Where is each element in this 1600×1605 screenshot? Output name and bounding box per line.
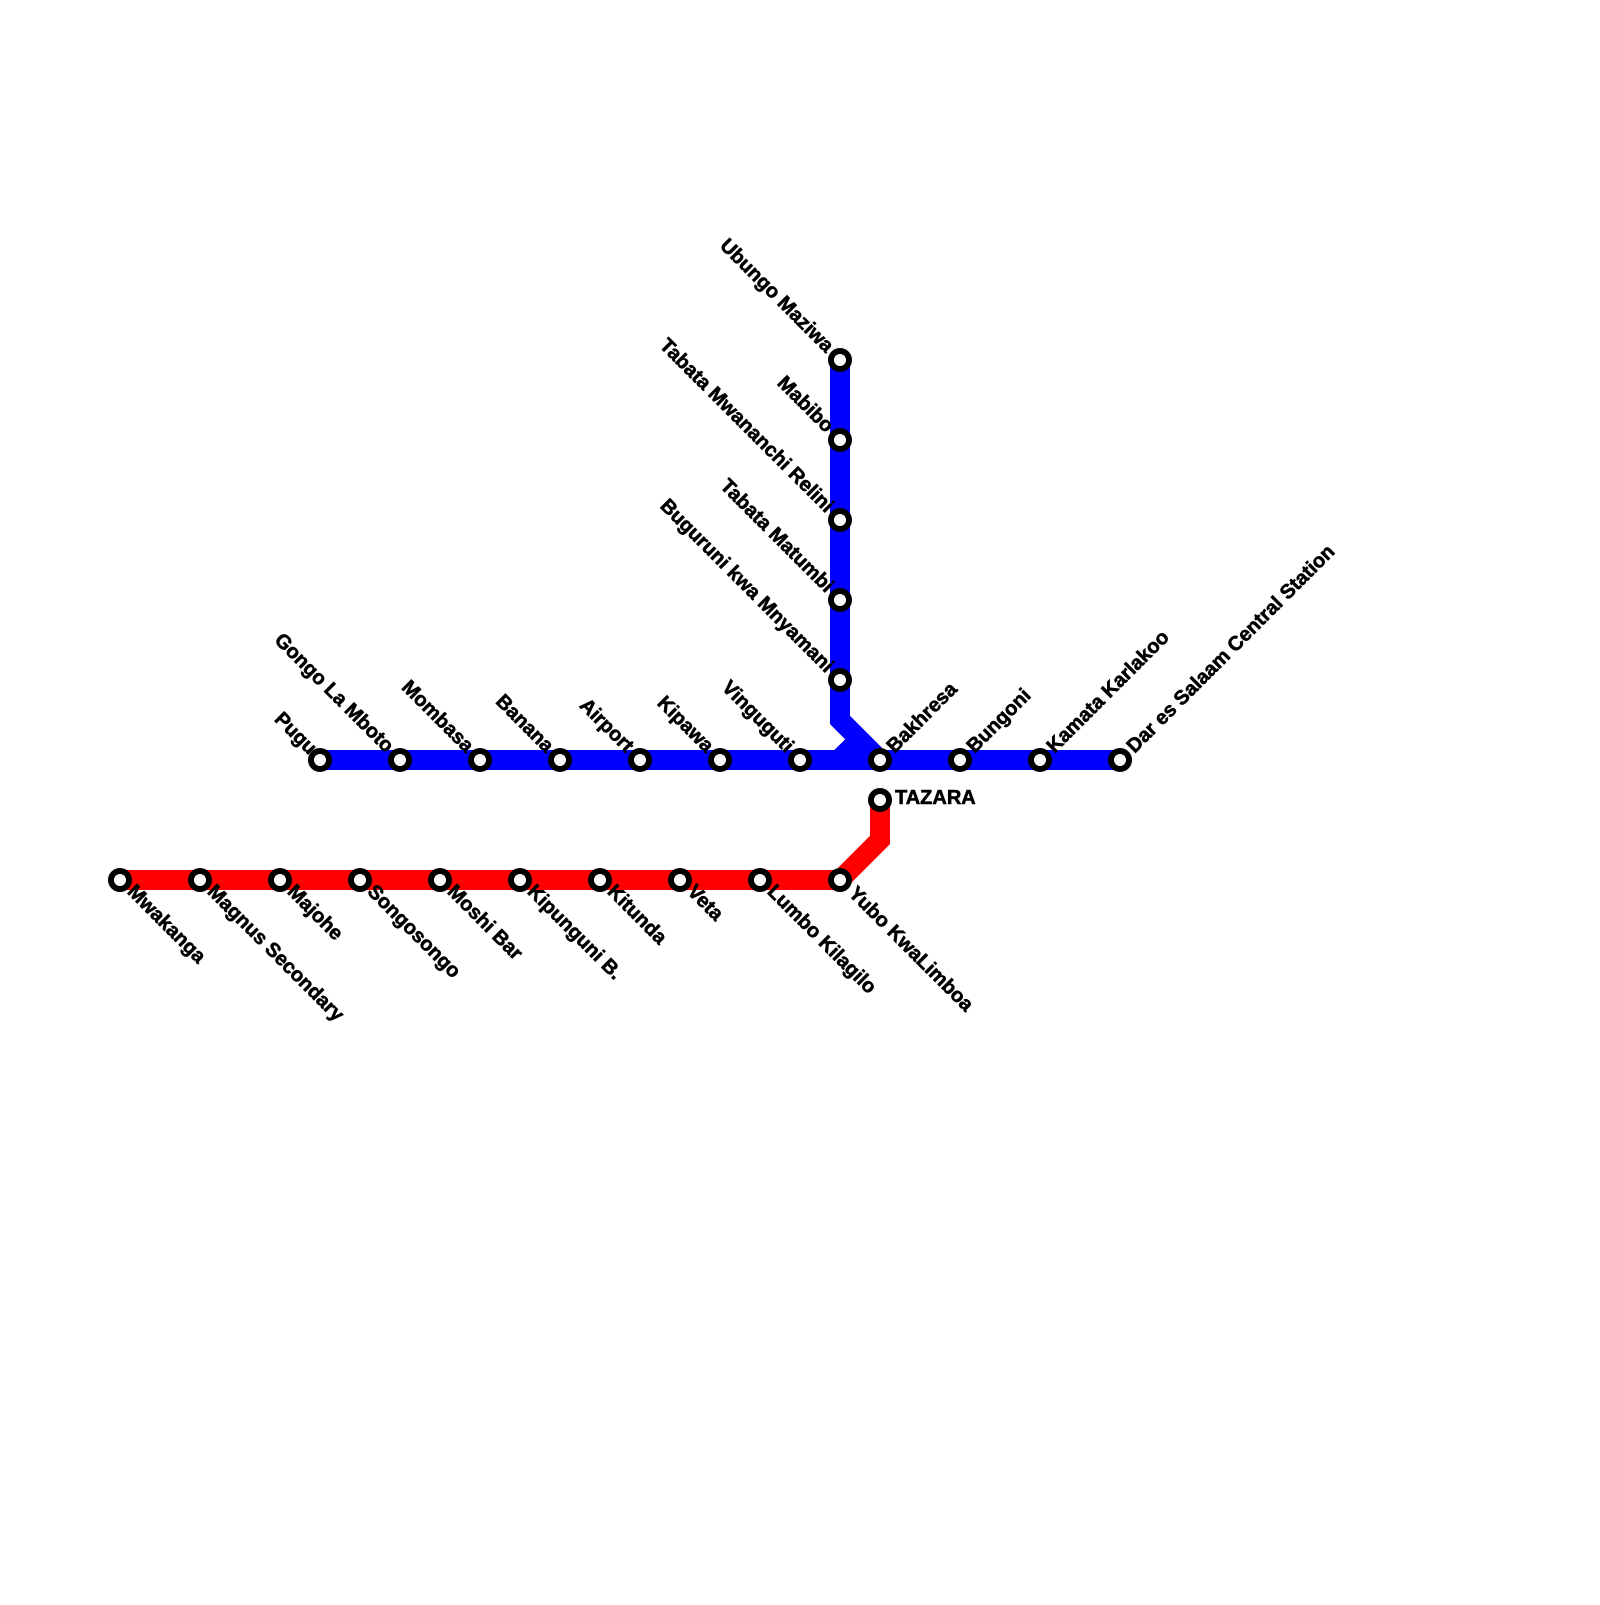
station Songosongo [351,871,465,983]
station Magnus Secondary [191,871,349,1027]
station Kipawa [653,692,729,769]
station Kitunda [591,871,672,949]
station TAZARA [871,787,976,809]
station Ubungo Maziwa [715,235,849,369]
station Banana [491,690,569,769]
station Tabata Matumbi [716,475,849,609]
station Tabata Mwananchi Relini [655,334,849,529]
station Kamata Karlakoo [1031,626,1174,769]
blue line branch segment Ubungo Maziwa down to junction at Bakhresa [840,360,880,760]
station Mwakanga [111,871,211,968]
station Airport [575,694,649,769]
station Buguruni kwa Mnyamani [656,495,849,689]
blue cap wedge artifact at branch junction bend [834,738,858,750]
station Vinguguti [717,677,809,769]
blue line horizontal segment Pugu to Dar es Salaam Central Station [320,750,1120,770]
station Kipunguni B. [511,871,626,984]
station Pugu [270,708,329,769]
station Yubo KwaLimboa [831,871,978,1017]
station Veta [671,871,728,926]
station Dar es Salaam Central Station [1111,541,1339,769]
station Lumbo Kilagilo [751,871,881,998]
station Gongo La Mboto [270,629,409,769]
svg-text:TAZARA: TAZARA [895,787,976,809]
station Bungoni [951,685,1035,769]
red line Mwakanga to TAZARA [120,800,880,880]
station Moshi Bar [431,871,527,965]
station Mabibo [773,372,849,449]
station Bakhresa [871,678,962,769]
station Mombasa [397,676,489,769]
station Majohe [271,871,347,945]
